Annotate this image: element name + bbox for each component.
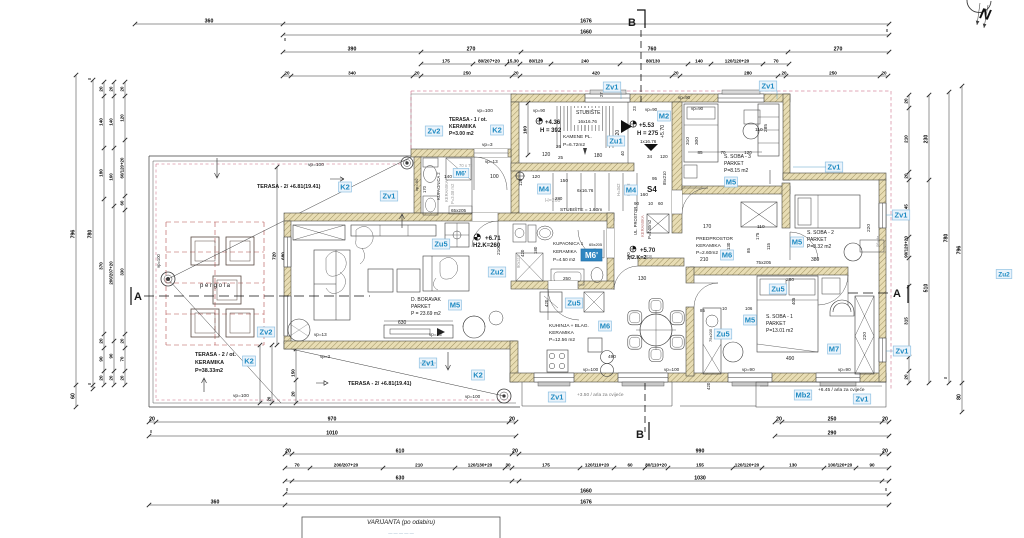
svg-text:420: 420 — [520, 249, 525, 257]
svg-text:10: 10 — [648, 201, 654, 206]
svg-text:Zv2: Zv2 — [260, 328, 273, 337]
desk soba3 — [744, 110, 760, 124]
wall kupaonica1 east — [607, 213, 614, 287]
entry door arc — [474, 157, 507, 190]
svg-text:20: 20 — [903, 173, 908, 179]
svg-text:85: 85 — [697, 150, 703, 155]
svg-text:27: 27 — [599, 92, 604, 97]
label M2 — [658, 111, 671, 121]
svg-text:20: 20 — [882, 448, 888, 454]
svg-text:150: 150 — [560, 178, 568, 184]
svg-text:Zu5: Zu5 — [434, 240, 447, 249]
stove — [547, 350, 568, 372]
dim row bottomE — [283, 475, 891, 483]
leader Zv1 top2 — [776, 91, 778, 99]
wall step — [510, 341, 518, 382]
svg-text:+5.70: +5.70 — [660, 125, 666, 138]
svg-text:106: 106 — [745, 306, 753, 311]
level triangle down — [644, 144, 658, 151]
svg-text:796: 796 — [956, 246, 962, 255]
svg-text:A: A — [134, 291, 142, 303]
dim row bottomD — [283, 462, 891, 470]
wall soba2 top — [783, 173, 886, 180]
arrow down terrace — [215, 158, 220, 178]
chair 1 — [670, 335, 684, 349]
svg-text:140: 140 — [108, 118, 113, 126]
svg-text:20: 20 — [776, 416, 782, 422]
sill south 2 — [622, 382, 664, 386]
svg-text:330: 330 — [119, 268, 124, 276]
svg-text:Zv1: Zv1 — [383, 192, 396, 201]
fixture circle on wall — [516, 172, 524, 180]
svg-text:M5: M5 — [792, 238, 802, 247]
svg-text:20: 20 — [513, 70, 519, 75]
dim col right2 — [923, 93, 931, 385]
svg-text:20: 20 — [781, 70, 787, 75]
bar table — [588, 338, 602, 352]
svg-text:KERAMIKA: KERAMIKA — [553, 249, 578, 254]
svg-text:220: 220 — [862, 332, 868, 340]
label Zv1 planter left — [548, 392, 565, 402]
svg-text:P=8.32 m2: P=8.32 m2 — [807, 244, 832, 250]
svg-text:20: 20 — [903, 98, 908, 104]
svg-text:K2: K2 — [340, 183, 350, 192]
predprostor door arc — [694, 283, 718, 307]
svg-text:250: 250 — [563, 276, 571, 281]
svg-text:M6: M6 — [722, 251, 732, 260]
svg-text:STUBIŠTE: STUBIŠTE — [576, 109, 601, 116]
window south 4 — [816, 373, 860, 382]
label K2 terasa2 mid — [472, 370, 485, 380]
svg-text:M5: M5 — [726, 178, 736, 187]
svg-text:Zv1: Zv1 — [856, 395, 869, 404]
svg-text:20: 20 — [119, 375, 124, 380]
svg-text:+5.70: +5.70 — [640, 248, 656, 254]
svg-text:vp=13: vp=13 — [485, 159, 498, 164]
svg-text:vp=13: vp=13 — [314, 332, 327, 337]
svg-text:20: 20 — [673, 70, 679, 75]
dim col right1 — [903, 93, 911, 385]
svg-text:175: 175 — [442, 58, 450, 63]
varijanta box — [302, 517, 500, 538]
window east soba1 — [879, 338, 886, 362]
wall soba1 north — [690, 267, 848, 275]
svg-text:Mb2: Mb2 — [796, 391, 811, 400]
svg-text:M6: M6 — [600, 322, 610, 331]
wall hall-kitchen — [638, 258, 684, 266]
svg-text:TERASA - 2/ +6.81(19.41): TERASA - 2/ +6.81(19.41) — [257, 184, 321, 190]
svg-text:90: 90 — [98, 356, 103, 362]
svg-text:160: 160 — [640, 192, 648, 198]
planter strip right Mb2 — [756, 382, 886, 407]
svg-text:270: 270 — [467, 46, 476, 52]
north arrow — [967, 0, 991, 12]
door arc hall to kitchen — [614, 266, 638, 290]
svg-text:180: 180 — [594, 153, 603, 159]
door gap soba3 — [672, 190, 682, 214]
pergola posts — [191, 237, 219, 265]
svg-text:58: 58 — [646, 255, 652, 261]
stairs door triangle — [621, 120, 632, 133]
svg-text:KAMENE PL.: KAMENE PL. — [563, 134, 592, 140]
svg-text:1030: 1030 — [694, 475, 706, 481]
svg-text:30: 30 — [505, 462, 511, 467]
svg-text:vp=90: vp=90 — [691, 106, 704, 111]
soba1 closet right — [855, 296, 874, 374]
svg-text:120: 120 — [532, 174, 540, 180]
sofa L-shape — [314, 250, 350, 320]
svg-text:15,30: 15,30 — [507, 58, 519, 63]
chair 6 — [670, 311, 684, 325]
svg-text:315: 315 — [903, 317, 908, 325]
label M4 hall2 — [625, 185, 638, 195]
svg-text:80: 80 — [956, 394, 962, 400]
svg-text:B: B — [636, 429, 644, 441]
diagonal sightline 2 — [168, 279, 281, 403]
svg-text:280: 280 — [555, 196, 563, 201]
wall entry top — [411, 149, 511, 157]
svg-text:120: 120 — [660, 154, 668, 159]
svg-text:vp=90: vp=90 — [645, 107, 658, 112]
svg-text:200/207+20: 200/207+20 — [334, 462, 359, 467]
wall soba3 south — [682, 186, 790, 194]
label M5 soba3 — [725, 177, 738, 187]
door living from hall opening — [472, 213, 498, 221]
label Zv1 top2 — [759, 81, 776, 91]
svg-text:250: 250 — [828, 416, 837, 422]
svg-text:120: 120 — [518, 178, 523, 186]
shower k1 corner — [516, 253, 543, 281]
corridor steps 6x — [552, 173, 554, 211]
soba1 door arc — [818, 275, 848, 305]
label Zu5 closet soba1 — [714, 329, 731, 339]
svg-text:85: 85 — [746, 248, 751, 253]
sink kupaonica2 — [423, 196, 438, 215]
window south 3 — [728, 373, 772, 382]
diagonal sightline 3 — [291, 349, 504, 396]
svg-text:26: 26 — [556, 144, 562, 149]
svg-text:TERASA - 2/ +6.81(19.41): TERASA - 2/ +6.81(19.41) — [348, 381, 412, 387]
bathtub k1 — [551, 269, 584, 285]
svg-text:110: 110 — [757, 224, 765, 230]
svg-text:85x210: 85x210 — [662, 171, 667, 185]
svg-text:+5.53: +5.53 — [639, 123, 655, 129]
svg-text:KERAMIKA: KERAMIKA — [195, 360, 224, 366]
column circle entry — [401, 157, 413, 169]
svg-text:210: 210 — [496, 247, 502, 255]
svg-text:vp=100: vp=100 — [664, 367, 680, 372]
svg-text:240: 240 — [581, 58, 589, 63]
svg-text:70: 70 — [119, 356, 124, 361]
arrow up entry — [400, 214, 405, 228]
svg-text:vp=90: vp=90 — [838, 367, 851, 372]
kupaonica2 fixtures — [423, 158, 438, 167]
svg-text:Zv1: Zv1 — [828, 163, 841, 172]
svg-text:20: 20 — [98, 338, 103, 344]
wall predprostor east — [782, 183, 790, 228]
svg-text:P=4.00m2: P=4.00m2 — [647, 219, 652, 239]
arrow down soba2 wall — [769, 170, 771, 184]
svg-text:300: 300 — [694, 137, 700, 145]
chair 4 — [628, 311, 642, 325]
svg-text:Zv1: Zv1 — [762, 82, 775, 91]
sill top 1 — [590, 90, 626, 94]
arrow down Zv1 living — [446, 352, 451, 370]
svg-text:140: 140 — [695, 58, 703, 63]
soba3 bed — [684, 104, 718, 162]
shower 70x70 — [446, 158, 471, 180]
dim terrace v2 — [266, 343, 274, 405]
dim row bottomA left — [147, 416, 518, 424]
soba1 armchair — [830, 300, 854, 316]
label K2 terasa2 bottom — [243, 356, 256, 366]
svg-text:Zu1: Zu1 — [609, 137, 622, 146]
svg-text:290: 290 — [828, 430, 837, 436]
label Zu5 living closet — [432, 239, 449, 249]
svg-text:70: 70 — [720, 150, 726, 155]
kupaonica1 door east — [607, 228, 614, 258]
label Zv2 living west — [257, 327, 274, 337]
svg-text:90/120+20: 90/120+20 — [903, 236, 908, 258]
label K2 terasa1 — [491, 125, 504, 135]
dim row top2 — [281, 29, 891, 37]
label M6 kupaonica2 — [453, 169, 469, 178]
window south 2 — [618, 373, 668, 382]
svg-text:130: 130 — [726, 242, 731, 250]
svg-text:P=8.15 m2: P=8.15 m2 — [724, 168, 749, 174]
label Zu5 soba1 bed — [769, 284, 786, 294]
terrace red setback dashes — [156, 163, 404, 165]
svg-text:KUHINJA + BLAG.: KUHINJA + BLAG. — [549, 323, 589, 329]
svg-text:180: 180 — [533, 246, 538, 254]
window living west 2 — [284, 237, 291, 267]
svg-text:20: 20 — [881, 70, 887, 75]
svg-text:20: 20 — [149, 416, 155, 422]
svg-text:+3.50 / arla za cvijeće: +3.50 / arla za cvijeće — [577, 392, 624, 398]
svg-text:20: 20 — [108, 86, 113, 91]
dim row top3 — [281, 46, 891, 54]
svg-text:KERAMIKA: KERAMIKA — [444, 180, 449, 202]
svg-text:VARIJANTA (po odabiru): VARIJANTA (po odabiru) — [367, 519, 435, 526]
svg-text:P=3.08 m2: P=3.08 m2 — [450, 183, 455, 204]
svg-text:20: 20 — [98, 86, 103, 92]
dim terrace 680 — [280, 219, 288, 343]
svg-text:70: 70 — [773, 58, 779, 63]
svg-text:vp=90: vp=90 — [678, 95, 691, 100]
svg-text:20: 20 — [108, 375, 113, 380]
svg-text:760: 760 — [648, 46, 657, 52]
tv bench — [384, 325, 453, 338]
svg-text:150: 150 — [290, 369, 295, 377]
column circle kitchen corner — [497, 389, 511, 403]
svg-text:115: 115 — [766, 242, 771, 250]
soba1 closet left — [703, 308, 721, 374]
svg-text:610: 610 — [396, 448, 405, 454]
svg-text:120: 120 — [119, 114, 124, 122]
svg-text:60/120+20: 60/120+20 — [119, 157, 124, 178]
svg-text:Zu2: Zu2 — [490, 268, 503, 277]
window top 1 — [585, 94, 630, 102]
person sketch 3 — [433, 258, 457, 291]
svg-text:M6': M6' — [585, 251, 598, 260]
window living west — [284, 296, 291, 336]
label M6 kupaonica1 filled — [581, 249, 602, 261]
svg-text:vp=100: vp=100 — [156, 253, 161, 268]
window south 1 — [534, 373, 574, 382]
label Zv2 terasa1 — [425, 126, 442, 136]
planter strip left — [521, 382, 523, 406]
svg-text:490: 490 — [608, 354, 616, 360]
svg-text:+6.45 / arla za cvijeće: +6.45 / arla za cvijeće — [818, 387, 865, 393]
svg-text:H2.K=2: H2.K=2 — [628, 255, 646, 261]
svg-text:120/120+20: 120/120+20 — [735, 462, 760, 467]
terrace TERASA-2 outline — [149, 155, 411, 157]
closet NW living — [445, 223, 469, 247]
svg-text:120/120+20: 120/120+20 — [725, 58, 750, 63]
svg-text:P=3.00 m2: P=3.00 m2 — [449, 131, 474, 137]
svg-text:+4.36: +4.36 — [545, 120, 561, 126]
dim row bottomG — [147, 499, 891, 507]
soba3 chair — [743, 123, 759, 139]
wall west band — [511, 102, 519, 213]
svg-text:20: 20 — [119, 338, 124, 343]
svg-text:25: 25 — [558, 155, 564, 160]
svg-text:PARKET: PARKET — [807, 237, 827, 243]
svg-text:1660: 1660 — [580, 29, 592, 35]
wall dining-soba1 upper — [686, 267, 694, 283]
svg-text:970: 970 — [328, 416, 337, 422]
wall south — [510, 373, 886, 382]
label Zv1 entry — [380, 191, 397, 201]
svg-text:M7: M7 — [829, 345, 839, 354]
shaft X box — [741, 202, 777, 227]
closet X living top-left — [293, 225, 345, 240]
svg-text:210: 210 — [903, 135, 908, 143]
svg-text:990: 990 — [696, 448, 705, 454]
label M5 soba1 — [744, 315, 757, 325]
svg-text:H = 275: H = 275 — [637, 131, 659, 137]
svg-text:20: 20 — [290, 391, 295, 397]
svg-text:20: 20 — [285, 448, 291, 454]
svg-text:P = 23.69 m2: P = 23.69 m2 — [411, 311, 441, 317]
svg-text:H=342: H=342 — [616, 183, 621, 196]
svg-text:370: 370 — [98, 262, 103, 270]
svg-text:75x205: 75x205 — [756, 260, 772, 265]
level mark +6.71 — [474, 234, 480, 240]
leader Zv1 right — [793, 166, 826, 168]
svg-text:KERAMIKA: KERAMIKA — [696, 243, 722, 249]
soba2 chair — [844, 243, 862, 261]
svg-text:Zv1: Zv1 — [551, 393, 564, 402]
S4 shoe closet X box — [647, 214, 669, 233]
nightstand soba3 — [684, 165, 697, 178]
svg-text:STUBIŠTE = 1.60m: STUBIŠTE = 1.60m — [560, 206, 602, 213]
label M4 hall1 — [538, 184, 551, 194]
svg-text:vp=90: vp=90 — [742, 367, 755, 372]
sill top 2 — [722, 90, 760, 94]
svg-text:10: 10 — [722, 306, 727, 311]
svg-text:vp=13: vp=13 — [429, 332, 442, 337]
svg-text:B: B — [628, 17, 636, 29]
svg-text:M2: M2 — [659, 112, 669, 121]
svg-text:140: 140 — [444, 174, 452, 180]
svg-text:170: 170 — [422, 185, 427, 193]
svg-text:160: 160 — [522, 126, 528, 134]
label Zu5 kitchen — [565, 298, 582, 308]
svg-text:405: 405 — [791, 297, 796, 305]
svg-text:160: 160 — [108, 173, 113, 181]
svg-text:Zv2: Zv2 — [428, 127, 441, 136]
svg-text:40: 40 — [620, 151, 625, 156]
svg-text:75x205: 75x205 — [708, 328, 713, 342]
dim row top4 — [419, 58, 791, 66]
wall under stairs — [511, 163, 634, 171]
svg-text:120: 120 — [744, 150, 752, 155]
sill south 4 — [820, 382, 856, 386]
svg-text:70: 70 — [294, 462, 300, 467]
entry door opening — [474, 149, 508, 157]
dim col left5 — [119, 80, 127, 387]
svg-text:M5: M5 — [745, 316, 755, 325]
level mark +5.53 — [630, 121, 636, 127]
svg-text:155: 155 — [696, 462, 704, 467]
svg-text:80/120: 80/120 — [529, 58, 543, 63]
svg-text:1660: 1660 — [580, 488, 592, 494]
svg-text:vp=100: vp=100 — [308, 162, 324, 168]
label Zv1 top1 — [603, 82, 620, 92]
svg-text:K2: K2 — [244, 357, 254, 366]
dim terrace v1 — [258, 343, 262, 405]
svg-text:796: 796 — [70, 230, 76, 239]
svg-text:130: 130 — [789, 462, 797, 467]
sill south 1 — [538, 382, 570, 386]
level mark +5.70 — [630, 246, 636, 252]
dim col right4 — [956, 84, 964, 414]
svg-text:20: 20 — [512, 448, 518, 454]
svg-text:06=da: 06=da — [875, 235, 880, 247]
svg-text:Zu2: Zu2 — [998, 271, 1010, 278]
svg-text:S4: S4 — [647, 185, 657, 194]
chair 2 — [649, 348, 663, 362]
svg-text:210: 210 — [415, 462, 423, 467]
label Zv1 east — [892, 210, 909, 220]
svg-text:420: 420 — [592, 70, 600, 75]
chair 3 — [628, 335, 642, 349]
wall hall east — [672, 102, 682, 233]
svg-text:80/130: 80/130 — [646, 58, 660, 63]
plants — [489, 311, 503, 325]
svg-text:65x205: 65x205 — [589, 242, 603, 247]
svg-text:20: 20 — [284, 70, 290, 75]
planter strip middle — [680, 405, 756, 407]
column circle terrace — [161, 272, 175, 286]
svg-text:280: 280 — [744, 70, 752, 75]
level mark +4.36 — [536, 118, 542, 124]
svg-text:210: 210 — [700, 257, 709, 263]
svg-text:390: 390 — [348, 46, 357, 52]
stairs east boundary — [627, 102, 629, 163]
window top 2 — [718, 94, 764, 102]
svg-text:UL. PROSTOR: UL. PROSTOR — [633, 207, 638, 235]
svg-text:310: 310 — [685, 137, 691, 145]
svg-text:420: 420 — [544, 299, 549, 307]
svg-text:20: 20 — [509, 416, 515, 422]
svg-text:P=4.50 m2: P=4.50 m2 — [553, 257, 576, 262]
svg-text:6x16.76: 6x16.76 — [577, 188, 594, 193]
svg-text:1676: 1676 — [580, 499, 592, 505]
svg-text:20: 20 — [414, 70, 420, 75]
dining table — [640, 314, 672, 346]
